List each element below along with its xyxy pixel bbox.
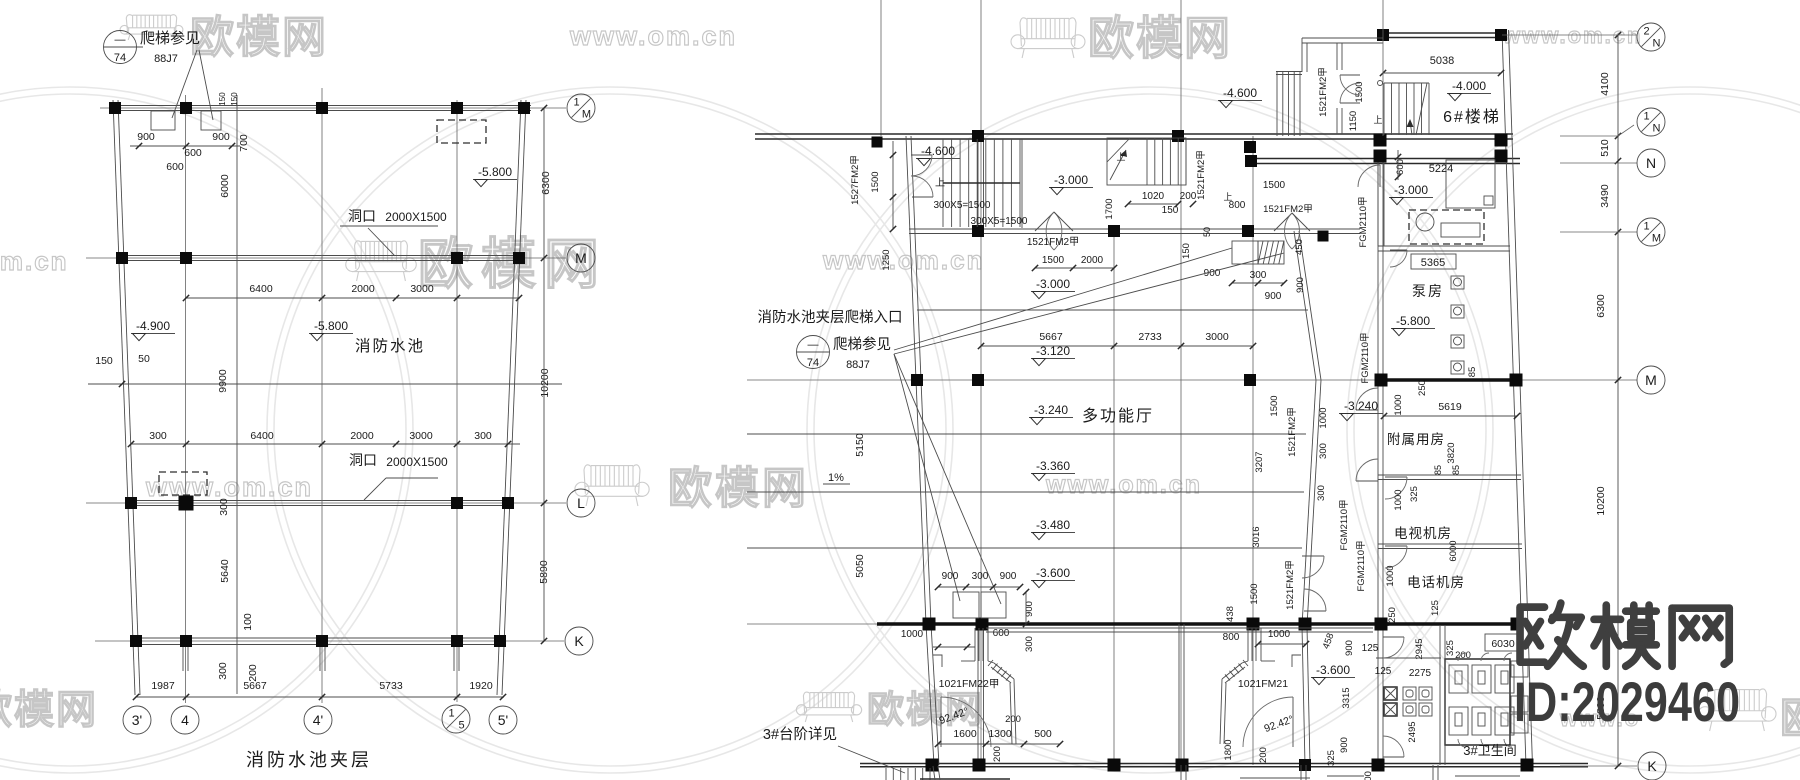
svg-text:-4.600: -4.600 — [1223, 86, 1257, 100]
climb entry hatched rect — [1232, 241, 1258, 264]
svg-text:5640: 5640 — [219, 559, 231, 583]
svg-text:-3.120: -3.120 — [1036, 344, 1070, 358]
alcove right wall notch — [1292, 655, 1301, 667]
ladder opening rects on top wall — [151, 111, 175, 130]
right plan corridor wall y231 — [909, 228, 1360, 230]
svg-text:N: N — [1653, 38, 1661, 50]
stall door arcs — [1458, 653, 1466, 661]
right plan axis vertical x1253 — [1252, 136, 1254, 765]
watermark sofa bottom-right — [1707, 689, 1714, 719]
svg-text:300: 300 — [972, 571, 989, 582]
big watermark 欧模网 drawn as strokes — [1520, 603, 1583, 666]
svg-text:85: 85 — [1433, 465, 1443, 475]
svg-text:10200: 10200 — [1595, 486, 1607, 515]
6# stair break line — [1416, 83, 1427, 135]
6# stair block left step outline — [1302, 37, 1383, 39]
svg-text:1020: 1020 — [1142, 191, 1165, 202]
svg-text:5619: 5619 — [1438, 401, 1462, 413]
svg-text:2000X1500: 2000X1500 — [386, 455, 448, 469]
svg-text:74: 74 — [807, 357, 819, 369]
svg-text:1527FM2甲: 1527FM2甲 — [850, 155, 861, 205]
toilet stalls row 1 — [1449, 665, 1468, 693]
svg-text:3490: 3490 — [1599, 184, 1611, 208]
svg-text:-3.600: -3.600 — [1036, 566, 1070, 580]
pump squares with circles — [1451, 276, 1464, 289]
6# stair small west flight — [1276, 72, 1278, 136]
door alcove left (1021FM22) pillar — [974, 628, 976, 661]
grid bubble 1/N — [1637, 108, 1665, 136]
svg-text:多功能厅: 多功能厅 — [1082, 407, 1154, 425]
svg-text:洞口: 洞口 — [348, 208, 376, 224]
left plan axis line M — [86, 257, 566, 259]
left plan columns on axis M — [116, 252, 128, 264]
grid bubble L left plan — [567, 489, 595, 517]
svg-text:1700: 1700 — [1104, 198, 1115, 219]
svg-text:消防水池夹层: 消防水池夹层 — [246, 750, 372, 770]
svg-text:欧模网: 欧模网 — [0, 688, 98, 732]
svg-text:2000: 2000 — [1081, 255, 1104, 266]
svg-text:2: 2 — [1643, 26, 1649, 38]
svg-text:FGM2110甲: FGM2110甲 — [1356, 540, 1367, 591]
svg-text:-3.600: -3.600 — [1316, 663, 1350, 677]
svg-text:9900: 9900 — [217, 369, 229, 393]
left plan axis 4' vertical — [321, 88, 323, 703]
svg-text:3315: 3315 — [1341, 687, 1352, 708]
svg-text:-3.240: -3.240 — [1344, 399, 1378, 413]
svg-text:1000: 1000 — [1393, 394, 1404, 415]
right plan axis verticals above top wall — [880, 0, 882, 136]
svg-text:-3.360: -3.360 — [1036, 459, 1070, 473]
wall x1181 lower segment — [1178, 624, 1180, 765]
svg-text:M: M — [575, 250, 587, 266]
svg-text:900: 900 — [1000, 571, 1017, 582]
label 5365 with box — [1411, 254, 1456, 269]
svg-text:1987: 1987 — [151, 680, 175, 692]
svg-text:-3.000: -3.000 — [1394, 183, 1428, 197]
dashed opening near L — [159, 472, 207, 495]
watermark big circles — [0, 94, 406, 766]
right plan left dim line vertical — [892, 141, 894, 229]
svg-text:250: 250 — [1417, 380, 1428, 396]
right dim line vertical — [1617, 35, 1619, 766]
toilet right closets — [1511, 661, 1528, 677]
svg-text:洞口: 洞口 — [349, 452, 377, 468]
axis stub 2/N — [1502, 34, 1637, 36]
svg-text:600: 600 — [166, 161, 184, 173]
svg-text:2945: 2945 — [1414, 638, 1425, 659]
svg-text:1500: 1500 — [1042, 255, 1065, 266]
right plan columns heavy wall y624 — [923, 618, 936, 631]
door at wall y477 — [1385, 476, 1407, 478]
svg-text:欧模网: 欧模网 — [668, 464, 809, 513]
svg-text:1250: 1250 — [881, 249, 892, 270]
svg-text:-5.800: -5.800 — [1396, 314, 1430, 328]
svg-text:1521FM2甲: 1521FM2甲 — [1027, 237, 1079, 248]
svg-text:附属用房: 附属用房 — [1387, 432, 1445, 447]
left plan dim row lower (300 6400 2000 3000 300) — [131, 443, 520, 445]
svg-text:1000: 1000 — [1318, 407, 1329, 428]
left plan axis line 1/M — [100, 107, 566, 109]
leader lines to ladder openings — [172, 50, 197, 118]
wall x978 lower segment — [977, 624, 979, 765]
left plan axis 1/5 vertical — [456, 100, 458, 702]
svg-text:1000: 1000 — [901, 629, 924, 640]
svg-text:6000: 6000 — [219, 174, 231, 198]
axis stub 1/M — [1560, 231, 1637, 233]
left plan top wall — [112, 105, 531, 107]
svg-text:200: 200 — [1180, 191, 1197, 202]
bottom partial lines — [1327, 775, 1364, 777]
svg-text:M: M — [1652, 233, 1661, 245]
svg-text:900: 900 — [1295, 277, 1306, 293]
svg-text:300: 300 — [217, 662, 229, 680]
svg-text:88J7: 88J7 — [154, 53, 178, 65]
svg-text:1521FM2甲: 1521FM2甲 — [1287, 407, 1298, 457]
corridor west wall mid — [1302, 380, 1316, 626]
right plan K axis to bubble — [1560, 765, 1637, 767]
alcove left chamfer hatch — [988, 660, 993, 666]
svg-text:150: 150 — [95, 355, 113, 367]
svg-text:6300: 6300 — [540, 171, 552, 195]
left entry stair hatch — [942, 139, 944, 227]
right plan M heavy segment — [1380, 378, 1517, 381]
right plan hall slope line y548 — [747, 547, 1302, 549]
right plan axis M — [747, 379, 1637, 381]
room 5224 top wall is N wall — [1383, 163, 1385, 246]
svg-text:88J7: 88J7 — [846, 359, 870, 371]
dim 6030 with box — [1485, 634, 1521, 651]
svg-text:1521FM2甲: 1521FM2甲 — [1318, 67, 1329, 117]
door alcove right (1021FM21) pillar — [1247, 628, 1249, 661]
svg-text:2000: 2000 — [351, 283, 375, 295]
left plan wall K — [133, 637, 503, 639]
svg-text:1021FM22甲: 1021FM22甲 — [939, 678, 1000, 690]
grid bubble 4 — [171, 706, 199, 734]
door arc alcove left — [940, 697, 942, 747]
door into 5224 room — [1379, 165, 1381, 187]
svg-text:125: 125 — [1375, 666, 1392, 677]
svg-text:-3.480: -3.480 — [1036, 518, 1070, 532]
svg-text:—: — — [115, 34, 126, 46]
svg-text:300X5=1500: 300X5=1500 — [970, 216, 1027, 227]
svg-text:泵房: 泵房 — [1412, 283, 1444, 299]
svg-text:250: 250 — [1387, 607, 1398, 623]
svg-text:4': 4' — [313, 712, 323, 728]
right plan wall N — [1245, 158, 1520, 160]
grid bubble 1/M right — [1637, 218, 1665, 246]
svg-text:510: 510 — [1599, 139, 1611, 157]
right plan columns axis M — [911, 374, 923, 386]
svg-text:1800: 1800 — [1223, 739, 1234, 760]
svg-text:200: 200 — [1258, 747, 1269, 763]
svg-text:3000: 3000 — [409, 430, 433, 442]
svg-text:1300: 1300 — [988, 728, 1012, 740]
6# stair up arrow — [1410, 121, 1412, 135]
wall x981 between 136-231 — [977, 136, 979, 231]
svg-text:300: 300 — [474, 430, 492, 442]
grid bubble 2/N — [1637, 23, 1665, 51]
svg-text:4: 4 — [181, 712, 189, 728]
floor rects near wall — [953, 592, 979, 618]
svg-text:900: 900 — [212, 131, 230, 143]
svg-text:1021FM21: 1021FM21 — [1238, 678, 1288, 690]
svg-text:4100: 4100 — [1599, 72, 1611, 96]
right plan columns bottom wall — [926, 759, 939, 772]
pump room top wall door — [1390, 249, 1407, 251]
right plan west wall slanted — [906, 136, 926, 624]
svg-text:85: 85 — [1467, 367, 1478, 378]
grid bubble M left plan — [567, 244, 595, 272]
svg-text:150: 150 — [218, 92, 227, 106]
door at wall y546 — [1385, 545, 1407, 547]
svg-text:3016: 3016 — [1251, 526, 1262, 547]
svg-text:6300: 6300 — [1595, 294, 1607, 318]
svg-text:-4.600: -4.600 — [921, 144, 955, 158]
svg-text:6#楼梯: 6#楼梯 — [1443, 108, 1501, 126]
dashed equipment zone — [1409, 210, 1484, 244]
svg-text:300X5=1500: 300X5=1500 — [933, 200, 990, 211]
right plan hall slope line y434 — [747, 433, 1306, 435]
svg-text:300: 300 — [218, 498, 230, 516]
leader 3# steps — [838, 746, 905, 773]
grid bubble 4' — [304, 706, 332, 734]
bottom stair hatch below wall — [885, 768, 887, 780]
svg-text:600: 600 — [993, 628, 1010, 639]
svg-text:300: 300 — [1318, 443, 1329, 459]
svg-text:FGM2110甲: FGM2110甲 — [1339, 499, 1350, 550]
svg-text:-4.000: -4.000 — [1452, 79, 1486, 93]
right plan columns top wall — [872, 137, 883, 148]
right plan hall slope line y492 — [747, 491, 1304, 493]
svg-text:1: 1 — [573, 97, 579, 109]
svg-text:3000: 3000 — [1205, 331, 1229, 343]
svg-text:1: 1 — [1643, 221, 1649, 233]
svg-text:10200: 10200 — [539, 368, 551, 397]
left plan bottom dim line — [136, 696, 504, 698]
alcove right chamfer — [1222, 663, 1242, 679]
alcove left chamfer — [994, 663, 1014, 679]
svg-text:2000X1500: 2000X1500 — [385, 210, 447, 224]
right plan axis vertical x981 full — [980, 136, 982, 765]
toilet stalls row 2 — [1449, 707, 1468, 735]
svg-text:6400: 6400 — [250, 430, 274, 442]
thin line pair below heavy wall — [986, 627, 1373, 629]
svg-text:-5.800: -5.800 — [478, 165, 512, 179]
corridor west wall lower — [1302, 626, 1305, 765]
6# main stair flight — [1383, 83, 1385, 135]
left plan inner vertical at 150 offset — [236, 95, 238, 694]
left plan west wall (axis 3') — [113, 100, 135, 695]
svg-text:www.om.cn: www.om.cn — [1502, 23, 1642, 48]
detail reference circle 74 — [104, 31, 137, 64]
svg-text:—: — — [808, 339, 819, 351]
svg-text:K: K — [1647, 758, 1657, 774]
svg-text:325: 325 — [1409, 486, 1420, 502]
toilet west wall — [1439, 626, 1441, 765]
dashed opening top-right — [437, 120, 486, 143]
axis stub N — [1560, 162, 1637, 164]
svg-text:450: 450 — [1294, 239, 1305, 255]
svg-text:150: 150 — [1181, 243, 1192, 259]
svg-text:1521FM2甲: 1521FM2甲 — [1263, 204, 1313, 215]
svg-text:上: 上 — [935, 177, 945, 189]
svg-text:1500: 1500 — [1354, 81, 1365, 102]
left plan wall stubs below K — [182, 647, 184, 671]
svg-text:3207: 3207 — [1254, 451, 1265, 472]
axis stub 1/N — [1560, 135, 1618, 137]
6# stair block top wall — [1380, 32, 1502, 34]
right plan top wall 1/N — [755, 133, 1513, 135]
svg-text:800: 800 — [1223, 632, 1240, 643]
right plan heavy wall y624 right segment — [1375, 622, 1524, 625]
svg-text:3820: 3820 — [1446, 442, 1457, 463]
svg-text:600: 600 — [1395, 159, 1406, 175]
svg-text:2733: 2733 — [1138, 331, 1162, 343]
svg-text:-3.000: -3.000 — [1054, 173, 1088, 187]
svg-text:5: 5 — [458, 720, 464, 732]
svg-text:300: 300 — [1316, 485, 1327, 501]
watermark sofa top-right — [1020, 18, 1027, 46]
right plan west wall lower — [926, 624, 934, 765]
svg-text:N: N — [1653, 123, 1661, 135]
right building east wall — [1502, 30, 1526, 766]
svg-text:900: 900 — [1363, 771, 1374, 780]
grid bubble 3' — [123, 706, 151, 734]
washroom door arcs — [1383, 636, 1404, 638]
svg-text:1500: 1500 — [1249, 583, 1260, 604]
svg-text:1600: 1600 — [953, 728, 977, 740]
svg-text:2275: 2275 — [1409, 668, 1432, 679]
svg-text:1500: 1500 — [870, 171, 881, 192]
svg-text:200: 200 — [1005, 714, 1021, 725]
watermark sofa top-left — [126, 15, 132, 33]
left plan axis 4 vertical — [185, 95, 187, 703]
left plan columns on axis K — [130, 635, 142, 647]
svg-text:www.om.cn: www.om.cn — [822, 245, 985, 275]
svg-text:92.42°: 92.42° — [1263, 713, 1296, 735]
svg-text:700: 700 — [238, 134, 250, 152]
svg-text:电话机房: 电话机房 — [1407, 575, 1465, 590]
washroom divider wall — [1376, 657, 1441, 659]
svg-text:438: 438 — [1225, 606, 1236, 622]
svg-text:消防水池: 消防水池 — [355, 337, 425, 355]
svg-text:ID:2029460: ID:2029460 — [1514, 670, 1740, 733]
svg-text:-3.240: -3.240 — [1034, 403, 1068, 417]
stair right boundary — [1021, 139, 1023, 228]
svg-text:3#台阶详见: 3#台阶详见 — [763, 726, 837, 743]
alcove right top edges — [1261, 660, 1275, 662]
door arc 6# entry — [1340, 74, 1360, 76]
door 1527FM2甲 at west wall — [911, 154, 932, 156]
grid bubble K right — [1638, 752, 1666, 780]
right plan bottom wall y765 — [860, 763, 1588, 765]
door corridor to tv room — [1356, 480, 1378, 482]
svg-text:1920: 1920 — [469, 680, 493, 692]
svg-text:L: L — [577, 495, 585, 511]
grid bubble N — [1637, 149, 1665, 177]
left plan columns on axis L — [125, 497, 137, 509]
grid bubble K left plan — [565, 627, 593, 655]
svg-text:M: M — [1645, 372, 1657, 388]
svg-text:5224: 5224 — [1429, 163, 1453, 175]
right plan columns 1/N N cluster — [1374, 134, 1387, 147]
svg-text:www.om.cn: www.om.cn — [569, 21, 737, 51]
svg-text:-5.800: -5.800 — [314, 319, 348, 333]
svg-text:458: 458 — [1321, 632, 1337, 651]
leader to opening M — [368, 228, 395, 256]
alcove left wall notch — [933, 655, 942, 667]
double door right corridor — [1274, 213, 1292, 231]
alcove left outer post — [1014, 679, 1016, 744]
svg-text:2495: 2495 — [1407, 721, 1418, 742]
wall y546 tv bottom — [1378, 543, 1522, 545]
svg-text:500: 500 — [1034, 728, 1052, 740]
west wall stub below bottom wall — [933, 766, 935, 780]
svg-text:FGM2110甲: FGM2110甲 — [1360, 332, 1371, 383]
svg-text:125: 125 — [1430, 600, 1441, 616]
svg-text:5038: 5038 — [1430, 55, 1454, 67]
svg-text:600: 600 — [184, 147, 202, 159]
svg-text:1000: 1000 — [1385, 565, 1396, 586]
svg-text:300: 300 — [1024, 636, 1035, 652]
axis x1383 through 6# block — [1382, 0, 1384, 136]
appendix door wall — [1336, 43, 1338, 70]
left plan wall M — [121, 255, 520, 257]
svg-text:3': 3' — [132, 712, 142, 728]
right plan axis vertical x1181 — [1180, 136, 1182, 765]
svg-text:5733: 5733 — [379, 680, 403, 692]
svg-text:消防水池夹层爬梯入口: 消防水池夹层爬梯入口 — [758, 309, 903, 326]
svg-text:电视机房: 电视机房 — [1394, 526, 1452, 541]
svg-text:50: 50 — [138, 353, 150, 365]
svg-text:2000: 2000 — [350, 430, 374, 442]
left plan east wall (axis 5') — [497, 100, 521, 695]
watermark sofa mid-center — [584, 465, 591, 494]
svg-text:5050: 5050 — [854, 554, 866, 578]
svg-text:1000: 1000 — [1268, 629, 1291, 640]
watermark sofa mid-left — [355, 241, 362, 269]
svg-text:爬梯参见: 爬梯参见 — [140, 30, 200, 47]
left plan wall L — [130, 500, 509, 502]
svg-text:300: 300 — [149, 430, 167, 442]
alcove right chamfer hatch — [1243, 660, 1248, 666]
equipment 5224 rect — [1446, 160, 1495, 208]
svg-text:om.cn: om.cn — [0, 246, 69, 276]
svg-text:1521FM2甲: 1521FM2甲 — [1285, 560, 1296, 610]
svg-text:5667: 5667 — [1039, 331, 1063, 343]
alcove right outer post — [1220, 679, 1222, 744]
svg-text:5150: 5150 — [854, 433, 866, 457]
svg-text:50: 50 — [1202, 227, 1212, 237]
svg-text:上: 上 — [1116, 152, 1125, 162]
right plan columns corridor wall y231 — [972, 225, 984, 237]
left plan dim row upper (6400 2000 3000) — [186, 297, 520, 299]
leader lines to floor rects — [894, 354, 960, 601]
basin squares — [1403, 687, 1416, 700]
svg-text:1521FM2甲: 1521FM2甲 — [1196, 150, 1207, 200]
corridor east wall x1380 — [1377, 160, 1379, 765]
corridor door upper (1521FM2) — [1302, 555, 1324, 557]
right plan hall slope line y310 — [917, 309, 1308, 311]
right plan heavy wall y624 — [747, 623, 877, 625]
svg-text:K: K — [574, 633, 584, 649]
watermark sofa bottom-middle — [803, 692, 809, 713]
left plan axis line K — [95, 640, 564, 642]
left plan mid slab line — [88, 383, 562, 385]
double door at corridor wall x1035-1073 — [1035, 212, 1054, 231]
svg-text:5': 5' — [498, 712, 508, 728]
svg-text:欧模: 欧模 — [1780, 694, 1800, 743]
